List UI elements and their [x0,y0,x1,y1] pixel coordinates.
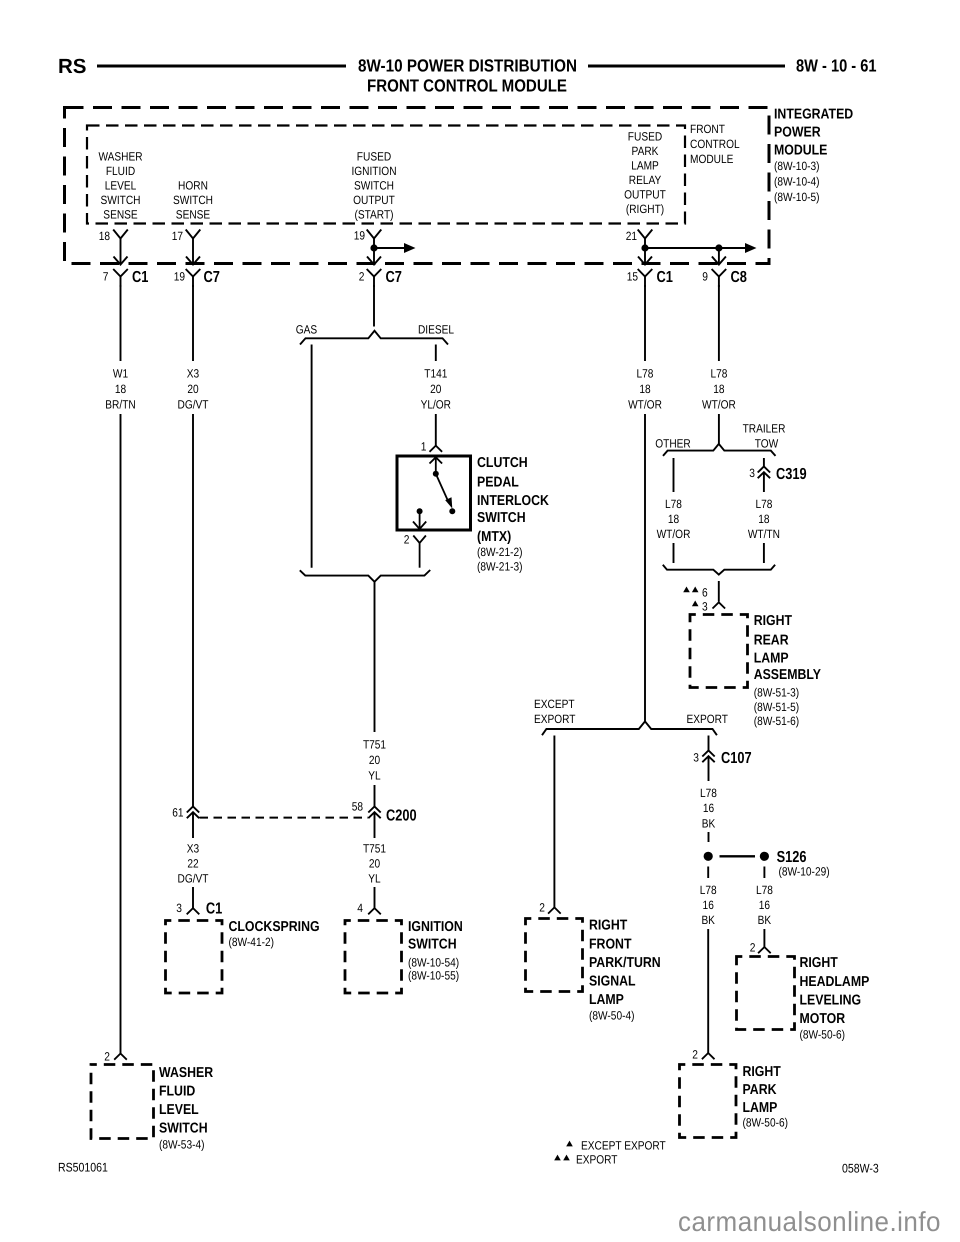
GAS label [296,323,317,337]
svg-text:3: 3 [749,466,755,480]
svg-text:SENSE: SENSE [176,207,210,221]
svg-text:(START): (START) [354,207,393,221]
svg-text:RIGHT: RIGHT [800,955,839,971]
wire X3 lower segment [192,414,194,807]
svg-text:C200: C200 [386,808,417,825]
washer switch pin 2 [104,1050,127,1064]
svg-text:(8W-10-55): (8W-10-55) [408,969,459,983]
svg-text:18: 18 [639,382,651,396]
svg-text:L78: L78 [700,786,717,800]
svg-text:L78: L78 [637,366,654,380]
svg-text:L78: L78 [700,883,717,897]
svg-text:(8W-51-3): (8W-51-3) [754,686,800,700]
svg-text:carmanualsonline.info: carmanualsonline.info [678,1206,941,1237]
svg-text:FRONT: FRONT [690,122,725,136]
wire L78 from C1 pin15 lower [644,414,646,721]
svg-text:8W-10 POWER DISTRIBUTION: 8W-10 POWER DISTRIBUTION [358,56,577,76]
svg-text:2: 2 [104,1050,110,1064]
svg-text:T751: T751 [363,841,386,855]
connector C200 pin 61 [172,806,199,820]
clockspring box [166,921,223,994]
svg-text:1: 1 [421,440,427,454]
svg-text:(8W-10-5): (8W-10-5) [774,190,820,204]
split bracket other/trailer [663,444,776,456]
legend except export [566,1139,666,1153]
svg-text:YL: YL [368,769,381,783]
svg-text:RIGHT: RIGHT [589,918,628,934]
svg-text:L78: L78 [755,497,772,511]
svg-text:WT/OR: WT/OR [657,527,691,541]
front control module label [690,122,740,166]
ignition switch pin 4 [357,901,381,915]
svg-text:C1: C1 [657,269,673,286]
svg-text:MOTOR: MOTOR [800,1011,846,1027]
svg-text:EXPORT: EXPORT [576,1153,618,1167]
svg-text:2: 2 [539,901,545,915]
split bracket except/export [542,721,717,735]
wire park lamp branch lower [707,929,709,1053]
wire trailer lower [763,543,765,563]
svg-text:S126: S126 [777,849,807,866]
integrated power module label [774,106,853,204]
front control module box [87,126,685,224]
wire T751 below C200 [374,812,376,838]
svg-text:REAR: REAR [754,633,789,649]
wire trailer tow below C319 [763,472,765,492]
svg-text:LEVEL: LEVEL [105,178,137,192]
svg-text:22: 22 [187,856,199,870]
svg-text:T751: T751 [363,738,386,752]
connector C200 pin 58 [352,800,417,825]
splice S126 link [720,855,756,857]
wire L78 from C8 pin9 lower [718,414,720,444]
wire L78 label right [702,366,736,411]
svg-text:(MTX): (MTX) [477,529,511,545]
park lamp pin 2 [692,1048,714,1062]
wire L78 16 BK label headlamp [756,883,773,927]
clutch switch moving arm [436,474,453,509]
wire except export branch [553,736,555,908]
right rear lamp assembly label [754,613,822,728]
svg-text:LEVEL: LEVEL [159,1102,199,1118]
svg-text:BR/TN: BR/TN [105,398,135,412]
connector C319 pin 3 [749,466,806,483]
wire L78 label left [628,366,662,411]
fused park lamp relay output (right) label [624,129,666,216]
svg-text:(8W-50-6): (8W-50-6) [800,1027,846,1041]
svg-text:L78: L78 [665,497,682,511]
washer fluid level switch label [159,1065,214,1151]
svg-text:18: 18 [668,512,680,526]
svg-text:YL: YL [368,871,381,885]
svg-text:(8W-41-2): (8W-41-2) [229,935,275,949]
svg-text:21: 21 [626,229,638,243]
wire park lamp branch upper [707,867,709,879]
wire other label [657,497,691,541]
svg-text:3: 3 [702,599,708,613]
junction dot pin19 [370,244,377,251]
clutch switch label [477,455,549,573]
svg-text:RELAY: RELAY [629,173,662,187]
integrated power module box [65,108,770,264]
arrow right from C8 branch [719,243,757,253]
svg-text:INTEGRATED: INTEGRATED [774,106,853,122]
svg-text:(8W-10-29): (8W-10-29) [779,865,830,879]
svg-text:SWITCH: SWITCH [408,936,457,952]
right rear lamp assembly box [690,615,748,688]
OTHER label [655,436,691,450]
svg-text:C8: C8 [731,269,747,286]
svg-text:T141: T141 [424,366,447,380]
connector C1 pin 7 [103,269,149,287]
wire X3 upper segment [192,285,194,361]
svg-text:EXPORT: EXPORT [534,712,576,726]
svg-text:WT/TN: WT/TN [748,527,780,541]
svg-text:(8W-50-4): (8W-50-4) [589,1009,635,1023]
wire T751 label lower [363,841,386,885]
svg-text:FRONT: FRONT [589,936,632,952]
clutch switch contact dot right [449,508,455,514]
svg-text:WASHER: WASHER [98,149,142,163]
svg-text:61: 61 [172,806,184,820]
connector C7 pin 2 [359,269,402,287]
svg-text:C319: C319 [776,466,807,483]
wire export below C107 [708,756,710,781]
svg-text:MODULE: MODULE [690,152,733,166]
pin 17 fork [172,229,201,265]
svg-text:LAMP: LAMP [743,1100,778,1116]
EXCEPT EXPORT label [534,697,576,726]
svg-text:ASSEMBLY: ASSEMBLY [754,667,822,683]
clutch switch internal pin arrow [430,457,443,473]
svg-text:(8W-51-5): (8W-51-5) [754,700,800,714]
wire diesel branch upper [435,345,437,362]
svg-text:C1: C1 [206,901,222,918]
right headlamp leveling motor box [737,957,795,1030]
wire T141 label [421,366,452,411]
svg-text:17: 17 [172,229,184,243]
svg-text:BK: BK [758,913,772,927]
washer fluid level switch box [91,1065,154,1139]
ignition switch label [408,919,463,983]
svg-text:16: 16 [759,898,771,912]
svg-text:(8W-21-2): (8W-21-2) [477,545,523,559]
wire X3 22 label [178,841,210,885]
svg-text:3: 3 [693,751,699,765]
svg-text:OUTPUT: OUTPUT [353,193,395,207]
wire X3 22 lower [192,887,194,908]
right park lamp box [680,1065,737,1138]
export marker 6 [683,585,708,599]
connector C8 pin 9 [702,269,747,287]
svg-text:OUTPUT: OUTPUT [624,187,666,201]
merge bracket other/trailer [663,565,775,575]
clutch switch contact dot left [417,508,423,514]
svg-text:(8W-10-3): (8W-10-3) [774,159,820,173]
svg-text:SWITCH: SWITCH [354,178,394,192]
connector C107 pin 3 [693,750,751,767]
svg-text:3: 3 [176,901,182,915]
svg-text:IGNITION: IGNITION [351,164,396,178]
clutch switch pin 2 fork [404,533,426,568]
svg-text:BK: BK [701,913,715,927]
svg-text:9: 9 [702,270,708,284]
arrow right from pin19 [374,243,416,253]
junction dot pin21 [641,244,648,251]
merge bracket gas/diesel [300,570,430,582]
svg-text:16: 16 [703,898,715,912]
svg-text:LAMP: LAMP [631,158,659,172]
svg-text:15: 15 [627,270,639,284]
washer fluid level switch sense label [98,149,142,221]
wire rr lamp stem [718,581,720,602]
clockspring label [229,919,320,949]
wire from C7 pin2 down [373,285,375,327]
dashed connector line C200 [200,817,369,819]
svg-text:MODULE: MODULE [774,142,827,158]
svg-text:CLOCKSPRING: CLOCKSPRING [229,919,320,935]
svg-text:2: 2 [692,1048,698,1062]
svg-text:X3: X3 [187,841,200,855]
svg-text:WT/OR: WT/OR [702,398,736,412]
wire other branch upper [673,458,675,492]
svg-text:LAMP: LAMP [754,651,789,667]
pin 18 fork [99,229,128,265]
svg-text:PARK: PARK [743,1082,778,1098]
TRAILER TOW label [743,421,786,450]
wire C8 branch down [712,248,726,265]
wire into S126 [708,832,710,842]
svg-text:SWITCH: SWITCH [159,1120,208,1136]
svg-text:TRAILER: TRAILER [743,421,786,435]
svg-text:20: 20 [430,382,442,396]
svg-text:TOW: TOW [755,436,779,450]
clockspring pin 3 C1 [176,901,222,918]
wire X3 label [178,366,210,411]
right front park/turn signal lamp label [589,918,661,1023]
svg-text:18: 18 [713,382,725,396]
svg-text:SENSE: SENSE [103,207,137,221]
clutch pedal interlock switch U1 box [397,456,471,530]
clutch switch pin 1 [421,440,442,454]
svg-text:PEDAL: PEDAL [477,474,519,490]
wire diesel branch lower [435,414,437,446]
svg-text:18: 18 [99,229,111,243]
svg-text:INTERLOCK: INTERLOCK [477,493,549,509]
svg-text:20: 20 [369,753,381,767]
splice S126 dot right [760,852,769,861]
svg-text:FLUID: FLUID [106,164,136,178]
wire L78 16 BK label park [700,883,717,927]
svg-text:18: 18 [758,512,770,526]
svg-text:RS501061: RS501061 [58,1161,108,1175]
DIESEL label [418,323,454,337]
svg-text:8W - 10 - 61: 8W - 10 - 61 [796,56,877,76]
svg-text:RIGHT: RIGHT [754,613,793,629]
svg-text:RIGHT: RIGHT [743,1064,782,1080]
splice S126 dot left [704,852,713,861]
wire W1 label [105,366,135,411]
svg-text:18: 18 [115,382,127,396]
svg-text:2: 2 [359,270,365,284]
right front park/turn signal lamp box [526,919,583,992]
svg-text:DIESEL: DIESEL [418,323,454,337]
junction dot C8 branch [715,244,722,251]
wire L78 from C1 pin15 upper [644,285,646,361]
wire T751 mid segment [374,785,376,807]
svg-text:YL/OR: YL/OR [421,398,452,412]
headlamp motor pin 2 [750,941,771,955]
svg-text:OTHER: OTHER [655,436,691,450]
horn switch sense label [173,178,213,221]
svg-text:58: 58 [352,800,364,814]
svg-text:BK: BK [702,816,716,830]
svg-text:L78: L78 [710,366,727,380]
svg-text:WASHER: WASHER [159,1065,214,1081]
svg-text:19: 19 [174,270,186,284]
wire export stub [708,736,710,751]
svg-text:L78: L78 [756,883,773,897]
svg-text:FRONT CONTROL MODULE: FRONT CONTROL MODULE [367,76,567,96]
svg-text:EXCEPT: EXCEPT [534,697,575,711]
wire X3 22 segment [192,812,194,838]
splice S126 label [777,849,830,879]
wire gas branch [311,345,313,568]
svg-text:IGNITION: IGNITION [408,919,463,935]
wire L78 16 BK label upper [700,786,717,830]
svg-text:7: 7 [103,270,109,284]
wire headlamp branch lower [763,929,765,947]
svg-text:2: 2 [750,941,756,955]
connector C1 pin 15 [627,269,673,287]
svg-text:EXCEPT EXPORT: EXCEPT EXPORT [581,1139,666,1153]
svg-text:(8W-10-54): (8W-10-54) [408,956,459,970]
right park lamp label [743,1064,789,1130]
svg-text:DG/VT: DG/VT [178,398,210,412]
wire W1 upper segment [120,285,122,361]
svg-text:CLUTCH: CLUTCH [477,455,528,471]
svg-text:C7: C7 [204,269,220,286]
wire trailer label [748,497,780,541]
wire T751 into ignition [374,887,376,908]
svg-text:2: 2 [404,533,410,547]
clutch switch contact dot top [433,471,439,477]
footer left [58,1161,108,1175]
svg-text:LAMP: LAMP [589,992,624,1008]
svg-text:20: 20 [369,856,381,870]
wire other branch lower [673,543,675,563]
svg-text:20: 20 [187,382,199,396]
svg-text:SWITCH: SWITCH [477,510,526,526]
svg-text:4: 4 [357,901,363,915]
svg-text:SWITCH: SWITCH [101,193,141,207]
svg-text:WT/OR: WT/OR [628,398,662,412]
svg-text:X3: X3 [187,366,200,380]
pin 21 fork [626,229,653,265]
svg-text:FUSED: FUSED [628,129,663,143]
svg-text:19: 19 [354,229,366,243]
wire W1 lower segment [120,414,122,1054]
svg-text:16: 16 [703,801,715,815]
wire trailer tow stub [763,458,765,467]
wire headlamp branch upper [763,867,765,879]
clutch switch output wire [413,511,426,529]
watermark [678,1206,941,1237]
svg-text:(8W-53-4): (8W-53-4) [159,1137,205,1151]
wire T751 label upper [363,738,386,783]
svg-text:RS: RS [58,55,86,78]
svg-text:058W-3: 058W-3 [842,1162,879,1176]
svg-text:DG/VT: DG/VT [178,871,210,885]
except export marker 3 [692,599,708,613]
footer right [842,1162,879,1176]
svg-text:PARK: PARK [632,144,659,158]
svg-text:C107: C107 [721,750,752,767]
rr lamp pin chevron [713,602,726,608]
svg-text:EXPORT: EXPORT [687,712,729,726]
wire L78 from C8 pin9 upper [718,285,720,361]
svg-text:(8W-10-4): (8W-10-4) [774,175,820,189]
fused ignition switch output (start) label [351,149,396,221]
svg-text:GAS: GAS [296,323,317,337]
svg-text:C7: C7 [386,269,402,286]
connector C7 pin 19 [174,269,220,287]
svg-text:FLUID: FLUID [159,1083,195,1099]
svg-text:HEADLAMP: HEADLAMP [800,974,870,990]
right headlamp leveling motor label [800,955,870,1041]
svg-text:C1: C1 [132,269,148,286]
svg-text:(8W-21-3): (8W-21-3) [477,559,523,573]
svg-text:LEVELING: LEVELING [800,992,862,1008]
svg-text:POWER: POWER [774,124,821,140]
svg-text:FUSED: FUSED [357,149,392,163]
svg-text:(RIGHT): (RIGHT) [626,202,664,216]
svg-text:(8W-50-6): (8W-50-6) [743,1115,789,1129]
svg-text:HORN: HORN [178,178,208,192]
svg-text:SIGNAL: SIGNAL [589,973,636,989]
svg-text:6: 6 [702,585,708,599]
HEADER [58,55,877,96]
rf park/turn pin 2 [539,901,560,915]
legend export [554,1153,618,1167]
svg-text:(8W-51-6): (8W-51-6) [754,714,800,728]
svg-text:W1: W1 [113,366,128,380]
EXPORT label [687,712,729,726]
svg-text:CONTROL: CONTROL [690,137,740,151]
split bracket gas/diesel [300,331,448,345]
wire pin21 to C8 branch [645,247,719,249]
ignition switch box [345,921,402,994]
svg-text:PARK/TURN: PARK/TURN [589,955,661,971]
svg-text:SWITCH: SWITCH [173,193,213,207]
pin 19 fork [354,229,382,265]
wire T751 stem [374,582,376,732]
